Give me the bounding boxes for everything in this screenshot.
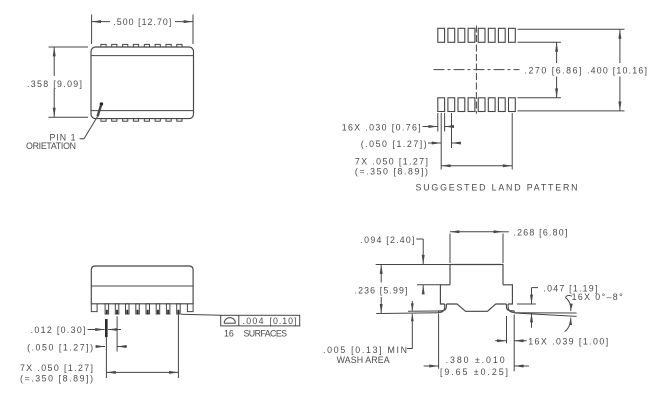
dim .268 stub: [503, 231, 509, 233]
svg-text:.004: .004: [243, 316, 264, 326]
pad1 center extension: [440, 113, 442, 170]
dim .094 upper arrow: [422, 239, 424, 264]
pin 1 marker dot: [100, 102, 104, 106]
dimension .500 extension line left: [91, 15, 93, 45]
left gull-wing lead: [438, 304, 446, 312]
lead exit extension line: [517, 303, 536, 305]
pad8 center extension: [511, 113, 513, 170]
svg-text:[9.65 ±0.25]: [9.65 ±0.25]: [440, 367, 508, 377]
svg-text:16: 16: [224, 329, 234, 339]
left foot upper plane line: [408, 310, 439, 312]
dim .012 left arrow: [88, 329, 105, 331]
flatness feature control frame: [221, 315, 300, 326]
dim .030 right arrow: [445, 126, 454, 128]
top pad row (8 pads): [438, 28, 516, 42]
bottom edge pins (8): [101, 119, 182, 122]
dim .268 line left arrow: [450, 231, 477, 233]
pin1 center extension lower: [105, 337, 107, 378]
svg-text:.270 [6.86]: .270 [6.86]: [525, 66, 582, 76]
svg-text:.500 [12.70]: .500 [12.70]: [113, 17, 171, 27]
svg-text:.012 [0.30]: .012 [0.30]: [31, 325, 86, 335]
svg-text:.358 [9.09]: .358 [9.09]: [27, 79, 82, 89]
pin 1 wedge mark: [98, 106, 101, 117]
wash area upper down arrow: [411, 301, 413, 311]
body inner line lower: [91, 110, 194, 112]
dim .380 left arrow: [424, 365, 439, 367]
right seating plane line: [514, 312, 576, 314]
pin 1 leader line: [80, 116, 98, 139]
svg-text:[0.10]: [0.10]: [270, 316, 297, 326]
pad1 right edge extension: [444, 113, 446, 132]
dim .400 extension line bottom: [518, 110, 625, 112]
side view pins (8) with dark feet: [105, 304, 180, 314]
dimension .500 line left with arrow: [92, 21, 110, 23]
pad1 left edge extension: [437, 113, 439, 132]
end view body outline: [440, 265, 512, 312]
svg-text:16X 0°–8°: 16X 0°–8°: [572, 292, 623, 302]
dim .030 left arrow: [423, 126, 438, 128]
wash area leader with up arrow: [407, 314, 412, 349]
pin8 center extension: [177, 315, 179, 379]
svg-text:SURFACES: SURFACES: [244, 329, 288, 339]
dim .270 extension line bottom: [518, 97, 561, 99]
dim .350 span line right arrow: [476, 165, 512, 167]
dim .039 right arrow: [514, 340, 527, 342]
dim .270 extension line top: [518, 41, 561, 43]
horizontal centerline: [434, 69, 520, 71]
dimension .500 line right with arrow: [175, 21, 193, 23]
dim .039 left arrow: [495, 340, 506, 342]
angle arc upper with arrow: [566, 298, 571, 311]
dim .094 leader tick: [416, 238, 423, 240]
svg-text:.094 [2.40]: .094 [2.40]: [361, 235, 415, 245]
dimension .358 extension line top: [49, 46, 89, 48]
dim .400 line upper with arrow: [619, 29, 621, 63]
dim .047 lower arrow: [531, 313, 533, 328]
svg-text:.236 [5.99]: .236 [5.99]: [355, 285, 408, 295]
top edge pins (8): [101, 44, 182, 47]
dimension .358 extension line bottom: [49, 116, 89, 118]
svg-text:.268 [6.80]: .268 [6.80]: [513, 227, 567, 237]
dim (.050) right arrow: [452, 142, 461, 144]
svg-text:7X .050 [1.27]: 7X .050 [1.27]: [355, 156, 428, 166]
svg-text:.380 ±.010: .380 ±.010: [446, 355, 505, 365]
profile-of-surface symbol: [224, 322, 235, 324]
dim (.050) side right arrow: [117, 346, 127, 348]
dim .350 side line left arrow: [106, 371, 142, 373]
flange top extension line: [417, 284, 440, 286]
svg-text:.400 [10.16]: .400 [10.16]: [587, 66, 647, 76]
package body outline: [91, 47, 194, 119]
dim .047 upper arrow: [531, 288, 533, 304]
right corner tab: [187, 304, 193, 312]
dim .400 line lower with arrow: [619, 77, 621, 111]
svg-text:WASH AREA: WASH AREA: [337, 355, 390, 365]
dim .400 extension line top: [518, 28, 625, 30]
svg-text:(.050 [1.27]): (.050 [1.27]): [27, 343, 93, 353]
dim .047 top tick: [532, 287, 539, 289]
dim .094 lower arrow: [422, 285, 424, 294]
blackened pin thickness bar: [105, 319, 108, 337]
left seating plane line: [376, 312, 438, 315]
leader line from pin feet to flatness frame: [181, 314, 221, 315]
svg-text:ORIETATION: ORIETATION: [26, 141, 76, 151]
dimension .358 line upper with arrow: [53, 47, 55, 76]
left corner tab: [91, 304, 97, 312]
dim .350 side line right arrow: [142, 371, 178, 373]
dim .380 left extension: [438, 314, 440, 369]
dim .270 line upper with arrow: [556, 42, 558, 63]
pin2 center extension: [116, 316, 118, 351]
dim .236 line lower with arrow: [380, 297, 382, 313]
side view body midline: [91, 285, 193, 287]
svg-text:(=.350 [8.89]): (=.350 [8.89]): [20, 373, 93, 383]
svg-text:.005 [0.13] MIN: .005 [0.13] MIN: [323, 345, 407, 355]
svg-text:(.050 [1.27]): (.050 [1.27]): [361, 139, 427, 149]
bottom pad row (8 pads): [438, 98, 516, 112]
dimension .500 extension line right: [192, 15, 194, 45]
angle arc lower with arrow: [565, 318, 571, 332]
right gull-wing lead: [506, 304, 514, 312]
svg-text:(=.350 [8.89]): (=.350 [8.89]): [355, 167, 428, 177]
toe extension line right: [513, 315, 515, 372]
pad2 center extension: [451, 113, 453, 148]
dim .236 line upper with arrow: [380, 265, 382, 283]
dimension .358 line lower with arrow: [53, 89, 55, 117]
dim .270 line lower with arrow: [556, 77, 558, 98]
dim .350 span line left arrow: [441, 165, 476, 167]
svg-text:16X .039 [1.00]: 16X .039 [1.00]: [528, 336, 608, 346]
dim .268 extension left: [449, 234, 451, 264]
cap top extension line: [376, 264, 450, 266]
dim .268 extension right: [502, 234, 504, 264]
right lead angle line 0-8 deg: [514, 313, 576, 316]
side view body outline: [91, 266, 193, 304]
body inner line upper: [91, 55, 194, 57]
frame divider 1: [238, 315, 240, 326]
dim .380 right arrow: [514, 365, 529, 367]
dim (.050) left arrow: [428, 142, 441, 144]
svg-text:16X .030 [0.76]: 16X .030 [0.76]: [342, 123, 421, 133]
heel extension line: [506, 316, 508, 343]
svg-text:SUGGESTED LAND PATTERN: SUGGESTED LAND PATTERN: [416, 183, 578, 193]
vertical centerline: [475, 26, 477, 114]
dim (.050) side left arrow: [98, 346, 105, 348]
angle leader hook: [566, 295, 572, 297]
dim .012 right arrow: [108, 329, 121, 331]
svg-text:7X .050 [1.27]: 7X .050 [1.27]: [20, 363, 93, 373]
dim .268 line right arrow: [477, 231, 504, 233]
